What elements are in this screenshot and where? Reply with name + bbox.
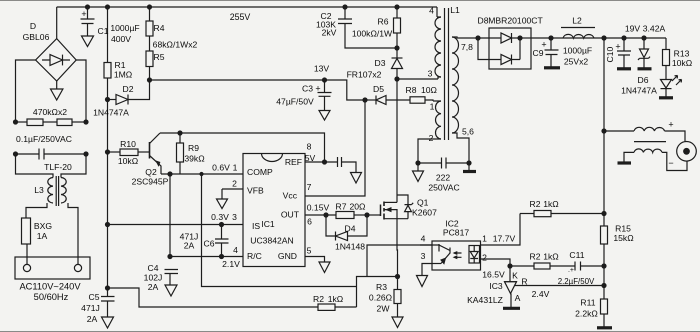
svg-text:R10: R10 (120, 139, 136, 149)
capacitor C7 REF bypass (338, 157, 357, 173)
svg-text:C1: C1 (98, 26, 109, 36)
svg-text:471J: 471J (81, 303, 100, 313)
capacitor C4 102J (165, 270, 179, 286)
svg-text:FR107x2: FR107x2 (347, 70, 382, 80)
svg-text:C9: C9 (533, 48, 544, 58)
svg-text:R7: R7 (336, 202, 347, 212)
secondary rail 19V (532, 37, 666, 39)
ground TL431 (503, 307, 520, 310)
svg-text:1MΩ: 1MΩ (114, 70, 133, 80)
ground C1 (82, 36, 94, 47)
wire bridge top to HV rail (56, 7, 58, 39)
capacitor C6 471J (215, 225, 229, 257)
svg-text:COMP: COMP (247, 167, 273, 177)
resistor R1 1M (104, 7, 111, 100)
bridge rectifier D GBL06 (36, 39, 77, 81)
ground IC1 (319, 262, 330, 273)
svg-text:IS: IS (252, 221, 260, 231)
svg-text:R5: R5 (154, 52, 165, 62)
svg-text:13V: 13V (314, 64, 330, 74)
svg-text:2: 2 (232, 179, 237, 189)
ground VFB (217, 189, 228, 209)
ground primary-aux (413, 163, 424, 182)
node gate (365, 213, 369, 217)
svg-text:25Vx2: 25Vx2 (564, 57, 589, 67)
svg-text:1000µF: 1000µF (563, 46, 592, 56)
wire opto pin4 (367, 245, 432, 277)
svg-text:4: 4 (233, 245, 238, 255)
svg-text:2.1V: 2.1V (222, 259, 240, 269)
diode D6 1N4747A zener (638, 38, 650, 68)
svg-text:R2: R2 (313, 294, 324, 304)
svg-text:470kΩx2: 470kΩx2 (33, 107, 67, 117)
node 470k-left (14, 120, 18, 124)
transistor Q2 2SC945P (150, 133, 162, 174)
AC plug P1 (15, 257, 90, 279)
svg-text:16.5V: 16.5V (482, 270, 505, 280)
transformer L1 core (445, 8, 449, 140)
resistor R10 10k (108, 149, 150, 156)
capacitor C11 2.2uF/50V (575, 262, 604, 271)
node cap-left (14, 152, 18, 156)
resistor R2 1k (bottom) (318, 304, 335, 310)
svg-text:+: + (541, 40, 546, 50)
svg-text:K2607: K2607 (412, 208, 437, 218)
svg-text:50/60Hz: 50/60Hz (34, 292, 69, 302)
resistor R8 10R (410, 97, 433, 103)
wire IS-sense line (335, 306, 357, 308)
svg-text:255V: 255V (230, 12, 251, 22)
diode D3 FR107x2 (392, 48, 403, 79)
transformer L1 aux winding pins 1-2 (418, 101, 441, 163)
svg-text:D2: D2 (123, 84, 134, 94)
svg-text:C4: C4 (148, 263, 159, 273)
svg-text:4: 4 (421, 234, 426, 244)
svg-text:C11: C11 (569, 250, 584, 260)
node D6-rail (642, 36, 646, 40)
svg-text:C3: C3 (302, 84, 313, 94)
svg-text:AC110V~240V: AC110V~240V (19, 282, 81, 292)
node Vref (602, 284, 606, 288)
shunt regulator IC3 KA431LZ (504, 266, 604, 307)
svg-text:10kΩ: 10kΩ (118, 156, 139, 166)
capacitor C8 222/250VAC (418, 158, 469, 169)
svg-text:100kΩ/1W: 100kΩ/1W (352, 29, 393, 39)
ground C3 (319, 111, 330, 121)
svg-text:250VAC: 250VAC (428, 183, 459, 193)
node snubber-bottom (395, 46, 399, 50)
svg-text:17.7V: 17.7V (493, 234, 516, 244)
node REF (323, 160, 327, 164)
node R6-rail (395, 5, 399, 9)
svg-text:15kΩ: 15kΩ (613, 233, 634, 243)
ground opto-pin3 (417, 264, 433, 287)
svg-text:Q1: Q1 (417, 198, 429, 208)
node emitter (168, 172, 172, 176)
svg-text:10kΩ: 10kΩ (672, 58, 693, 68)
svg-text:2.2µF/50V: 2.2µF/50V (558, 277, 595, 286)
node C1-rail (86, 5, 90, 9)
svg-text:GBL06: GBL06 (23, 32, 50, 42)
resistor R6 100k/1W (394, 7, 401, 48)
resistors 470kOhm x2 (16, 119, 87, 126)
svg-text:1: 1 (482, 234, 487, 244)
node Vcc-rail-left (148, 78, 152, 82)
wire source down to CS node (396, 219, 399, 277)
wire pin5 GND (305, 257, 325, 263)
node D8-input (476, 36, 480, 40)
transistor Q1 K2607 MOSFET (367, 195, 413, 220)
svg-text:A: A (515, 293, 521, 303)
node C5-top (106, 286, 110, 290)
node C4-top (168, 255, 172, 259)
wire C5-node to bottom R2 (108, 288, 319, 307)
node R1-rail (106, 5, 110, 9)
svg-text:2.4V: 2.4V (532, 289, 550, 299)
node cap-right (84, 152, 88, 156)
diode D4 1N4148 (326, 215, 367, 241)
svg-text:5: 5 (307, 246, 312, 256)
output filter coil bottom (624, 149, 687, 171)
svg-text:3: 3 (421, 251, 426, 261)
wire divider-mid (603, 266, 605, 286)
svg-text:R2: R2 (530, 252, 541, 262)
ground D6 (638, 67, 652, 70)
wire pin7 Vcc (305, 100, 365, 196)
svg-text:102J: 102J (144, 273, 163, 283)
svg-text:1000µF: 1000µF (110, 23, 139, 33)
wire pin6 OUT (305, 214, 336, 216)
resistor R2 1k (lower) (510, 263, 575, 269)
svg-text:PC817: PC817 (443, 228, 469, 238)
svg-text:R8: R8 (406, 85, 417, 95)
svg-text:R11: R11 (580, 298, 595, 308)
svg-text:68kΩ/1Wx2: 68kΩ/1Wx2 (153, 40, 198, 50)
svg-text:Q2: Q2 (145, 167, 157, 177)
svg-text:C5: C5 (89, 292, 100, 302)
node C3-rail (323, 78, 327, 82)
wire pin8 REF (305, 161, 338, 163)
node L2-out (602, 36, 606, 40)
svg-text:TLF-20: TLF-20 (44, 162, 72, 172)
resistor R11 2.2k (601, 286, 608, 327)
wire plug-left to fuse (26, 244, 28, 264)
wire left loop vertical (16, 60, 36, 122)
svg-text:C6: C6 (204, 239, 215, 249)
node CS (396, 275, 400, 279)
svg-text:D5: D5 (373, 84, 384, 94)
resistor R9 39k (177, 133, 184, 174)
ground bridge-negative (51, 81, 63, 100)
svg-text:1A: 1A (37, 231, 48, 241)
capacitor C5 471J (101, 297, 115, 318)
svg-text:19V: 19V (625, 24, 641, 34)
capacitor C2 103K/2kV (338, 7, 397, 48)
svg-text:GND: GND (278, 251, 297, 261)
ground R3 (392, 317, 403, 328)
resistor R5 68k (146, 36, 153, 80)
ground C10 (617, 67, 631, 70)
wire x108 column (107, 100, 109, 297)
wire L3 right top (61, 154, 86, 178)
transformer L1 secondary winding pins 7,8-5,6 (452, 37, 478, 163)
svg-text:D3: D3 (375, 58, 386, 68)
optocoupler IC2 PC817 (420, 241, 481, 270)
svg-text:2A: 2A (148, 282, 159, 292)
capacitor C10 1000uF (617, 38, 631, 68)
LED D7 (661, 76, 682, 98)
svg-text:222: 222 (436, 173, 451, 183)
svg-text:R6: R6 (378, 17, 389, 27)
svg-text:D6: D6 (638, 75, 649, 85)
node C2-rail (343, 5, 347, 9)
svg-text:MBR20100CT: MBR20100CT (488, 16, 543, 26)
resistor R2 1k (upper) (520, 211, 604, 217)
svg-text:7,8: 7,8 (461, 42, 473, 52)
common-mode choke L3 TLF-20 (48, 176, 66, 206)
wire pin3 IS line (108, 224, 244, 226)
svg-text:7: 7 (307, 182, 312, 192)
ground C9 (544, 66, 560, 69)
svg-text:+: + (81, 9, 86, 19)
wire opto pin1 (480, 214, 520, 246)
svg-text:L1: L1 (450, 5, 460, 15)
svg-text:5,6: 5,6 (462, 127, 474, 137)
node TL431-K (508, 264, 512, 268)
node R4-rail (148, 5, 152, 9)
svg-text:D: D (30, 21, 36, 31)
svg-text:IC3: IC3 (489, 281, 503, 291)
wire Q2 emitter node (161, 173, 243, 175)
svg-text:0.3V: 0.3V (211, 212, 229, 222)
svg-text:C10: C10 (605, 47, 615, 63)
capacitor C9 1000uF (545, 38, 559, 67)
svg-text:R9: R9 (188, 143, 199, 153)
svg-text:3: 3 (232, 212, 237, 222)
wire output column (603, 38, 605, 214)
svg-text:1: 1 (430, 102, 435, 112)
svg-text:1N4148: 1N4148 (335, 242, 365, 252)
node IS-tap (106, 223, 110, 227)
svg-text:1kΩ: 1kΩ (328, 294, 344, 304)
HV+ rail 255V (57, 6, 437, 8)
svg-text:KA431LZ: KA431LZ (467, 295, 503, 305)
ground R11 (597, 326, 612, 329)
svg-text:4: 4 (429, 6, 434, 16)
node output-branch (602, 129, 606, 133)
diode D8 MBR20100CT dual (478, 28, 532, 69)
svg-text:.+: .+ (568, 267, 574, 274)
svg-text:R/C: R/C (247, 251, 262, 261)
svg-text:2: 2 (429, 133, 434, 143)
capacitor C1 1000uF/400V (81, 7, 95, 36)
svg-text:20Ω: 20Ω (350, 202, 367, 212)
svg-text:D8: D8 (478, 16, 489, 26)
svg-text:1N4747A: 1N4747A (621, 86, 657, 96)
node COMP-feedback-tap (200, 173, 203, 176)
node R1-D2 (106, 98, 110, 102)
svg-text:R: R (521, 277, 527, 287)
wire COMP feedback loop down (202, 174, 357, 287)
svg-text:R3: R3 (376, 282, 387, 292)
svg-text:REF: REF (285, 157, 302, 167)
resistor R3 0.26R/2W (394, 277, 401, 318)
svg-text:3: 3 (428, 69, 433, 79)
wire opto pin2 (480, 259, 510, 266)
output filter coil top (604, 127, 685, 141)
svg-text:2A: 2A (184, 241, 195, 251)
svg-text:0.1µF/250VAC: 0.1µF/250VAC (16, 134, 72, 144)
svg-text:3.42A: 3.42A (643, 24, 666, 34)
svg-text:R13: R13 (674, 49, 690, 59)
diode D2 1N4747A (108, 80, 150, 105)
node drain-pin3 (395, 77, 399, 81)
diode D5 (365, 96, 410, 105)
svg-text:1: 1 (233, 163, 238, 173)
svg-text:2kV: 2kV (322, 28, 337, 38)
wire CS to feedback column (357, 277, 398, 308)
svg-text:5V: 5V (305, 153, 316, 163)
connector J1 output jack (677, 142, 697, 162)
node C6-top (220, 223, 224, 227)
svg-text:L3: L3 (34, 185, 44, 195)
node OUT (324, 213, 328, 217)
resistor R4 68k (146, 7, 153, 36)
resistor R7 20R (336, 212, 367, 219)
node C10-rail (622, 36, 626, 40)
svg-text:R4: R4 (154, 23, 165, 33)
wire right loop vertical (76, 60, 86, 122)
ground C4 (165, 285, 177, 296)
wire pin3 to transformer (397, 78, 438, 80)
node C6-bottom (220, 255, 224, 259)
svg-text:VFB: VFB (247, 186, 264, 196)
capacitor CX 0.1uF/250VAC (16, 149, 87, 160)
svg-text:2W: 2W (377, 304, 391, 314)
node C9-rail (549, 36, 553, 40)
wire emitter down to R/C line (169, 174, 171, 257)
svg-text:+: + (615, 42, 620, 52)
svg-text:IC1: IC1 (261, 219, 275, 229)
node R9-top (178, 131, 182, 135)
ground C5 (102, 317, 114, 328)
svg-text:1kΩ: 1kΩ (543, 252, 559, 262)
transformer L1 primary winding pins 4-3 (435, 7, 441, 79)
wire fuse to L3 left winding (26, 203, 47, 218)
ground output-coil (618, 161, 632, 164)
node C11-right (602, 264, 606, 268)
svg-text:0.26Ω: 0.26Ω (369, 293, 393, 303)
svg-text:K: K (512, 271, 518, 281)
wire plug-right to L3 (68, 203, 78, 264)
Vcc 13V rail (150, 80, 366, 100)
node sec-gnd (467, 161, 471, 165)
wire drain vertical (396, 79, 398, 202)
node R10-tap (106, 150, 110, 154)
ground secondary 5,6 (463, 163, 476, 172)
op-amp IC1 UC3842AN (243, 154, 305, 267)
svg-text:+: + (315, 84, 320, 94)
svg-text:8: 8 (307, 142, 312, 152)
svg-text:2A: 2A (87, 314, 98, 324)
resistor R13 10k (663, 38, 670, 80)
wire L3 left top (16, 154, 54, 178)
svg-text:0.6V: 0.6V (212, 163, 230, 173)
ground REF-cap (351, 173, 362, 184)
svg-text:L2: L2 (572, 16, 582, 26)
wire pin4 R/C line (170, 256, 243, 258)
svg-text:−: − (668, 158, 673, 168)
node R15-top (602, 212, 606, 216)
svg-text:1N4747A: 1N4747A (93, 108, 129, 118)
capacitor C3 47uF/50V (318, 80, 332, 111)
svg-text:+: + (668, 120, 673, 130)
wire Q2 collector to REF (160, 133, 325, 162)
wire pin2 VFB (222, 188, 243, 190)
svg-text:6: 6 (307, 217, 312, 227)
fuse BXG 1A (22, 218, 31, 244)
svg-text:Vcc: Vcc (283, 191, 298, 201)
node 470k-right (84, 120, 88, 124)
svg-text:R15: R15 (615, 224, 631, 234)
output coil core (634, 141, 666, 143)
svg-text:2.2kΩ: 2.2kΩ (575, 309, 598, 319)
svg-text:D4: D4 (345, 224, 356, 234)
svg-text:1kΩ: 1kΩ (543, 199, 559, 209)
svg-text:UC3842AN: UC3842AN (250, 236, 293, 246)
node Vcc-D5 (363, 98, 367, 102)
svg-text:0.15V: 0.15V (307, 203, 330, 213)
svg-text:OUT: OUT (281, 210, 300, 220)
svg-text:2SC945P: 2SC945P (132, 177, 169, 187)
svg-text:39kΩ: 39kΩ (184, 154, 205, 164)
inductor L2 (561, 28, 595, 39)
svg-text:10Ω: 10Ω (421, 85, 438, 95)
node aux-gnd (416, 161, 420, 165)
svg-text:47µF/50V: 47µF/50V (276, 97, 314, 107)
svg-text:2: 2 (482, 253, 487, 263)
svg-text:R2: R2 (530, 199, 541, 209)
svg-text:R1: R1 (115, 60, 126, 70)
ground LED (659, 96, 673, 99)
svg-text:BXG: BXG (34, 221, 52, 231)
resistor R15 15k (601, 214, 608, 267)
svg-text:400V: 400V (111, 34, 131, 44)
